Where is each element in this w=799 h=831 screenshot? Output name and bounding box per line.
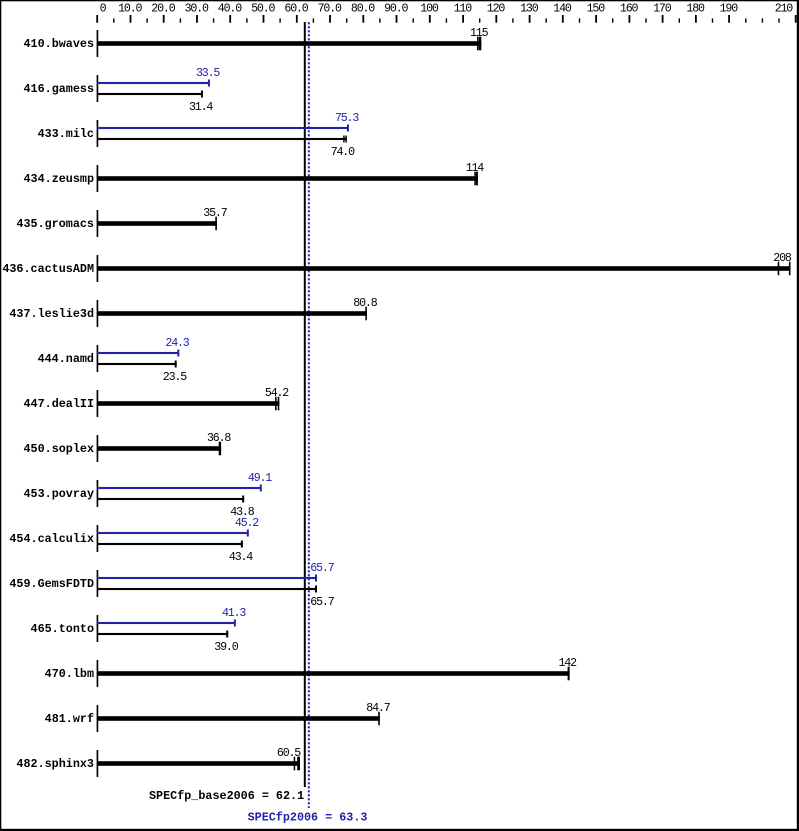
svg-text:50.0: 50.0 [251, 2, 275, 15]
svg-text:10.0: 10.0 [118, 2, 142, 15]
row 450.soplex [23, 432, 231, 462]
svg-text:436.cactusADM: 436.cactusADM [2, 262, 94, 276]
svg-text:444.namd: 444.namd [38, 352, 94, 366]
row 453.povray [23, 472, 272, 519]
svg-text:90.0: 90.0 [384, 2, 408, 15]
svg-text:416.gamess: 416.gamess [23, 82, 94, 96]
svg-text:120: 120 [487, 2, 506, 15]
svg-text:30.0: 30.0 [185, 2, 209, 15]
svg-text:482.sphinx3: 482.sphinx3 [16, 757, 94, 771]
svg-text:115: 115 [470, 27, 489, 40]
row 434.zeusmp [23, 162, 484, 192]
row 410.bwaves [23, 27, 488, 57]
svg-text:45.2: 45.2 [235, 517, 259, 530]
svg-text:437.leslie3d: 437.leslie3d [9, 307, 94, 321]
svg-text:35.7: 35.7 [203, 207, 227, 220]
svg-text:43.4: 43.4 [229, 551, 253, 564]
svg-text:49.1: 49.1 [248, 472, 272, 485]
svg-text:100: 100 [420, 2, 439, 15]
row 454.calculix [9, 517, 259, 564]
SPECfp2006 mean line (63.3, dotted) [308, 22, 310, 808]
svg-text:130: 130 [520, 2, 539, 15]
border frame [0, 0, 799, 1]
svg-text:459.GemsFDTD: 459.GemsFDTD [9, 577, 94, 591]
SPECfp_base2006 mean line (62.1) [304, 22, 306, 787]
svg-text:SPECfp_base2006 = 62.1: SPECfp_base2006 = 62.1 [149, 789, 304, 803]
svg-text:23.5: 23.5 [163, 371, 187, 384]
row 447.dealII [23, 387, 289, 417]
row 416.gamess [23, 67, 220, 114]
svg-text:435.gromacs: 435.gromacs [16, 217, 94, 231]
row 437.leslie3d [9, 297, 377, 327]
svg-text:454.calculix: 454.calculix [9, 532, 94, 546]
svg-text:160: 160 [620, 2, 639, 15]
svg-text:24.3: 24.3 [165, 337, 189, 350]
svg-text:142: 142 [558, 657, 577, 670]
row 470.lbm [45, 657, 577, 687]
svg-text:75.3: 75.3 [335, 112, 359, 125]
row 481.wrf [45, 702, 391, 732]
row 435.gromacs [16, 207, 227, 237]
svg-text:447.dealII: 447.dealII [23, 397, 94, 411]
svg-text:36.8: 36.8 [207, 432, 231, 445]
svg-text:60.5: 60.5 [277, 747, 301, 760]
row 433.milc [38, 112, 360, 159]
svg-text:434.zeusmp: 434.zeusmp [23, 172, 94, 186]
svg-text:465.tonto: 465.tonto [31, 622, 94, 636]
svg-text:40.0: 40.0 [218, 2, 242, 15]
svg-text:65.7: 65.7 [310, 562, 334, 575]
svg-text:114: 114 [466, 162, 485, 175]
svg-text:470.lbm: 470.lbm [45, 667, 94, 681]
row 482.sphinx3 [16, 747, 301, 777]
svg-text:110: 110 [454, 2, 473, 15]
row 465.tonto [31, 607, 247, 654]
svg-text:33.5: 33.5 [196, 67, 220, 80]
svg-text:80.8: 80.8 [353, 297, 377, 310]
x axis scale [96, 15, 796, 23]
svg-text:190: 190 [720, 2, 739, 15]
row 444.namd [38, 337, 190, 384]
svg-text:20.0: 20.0 [151, 2, 175, 15]
svg-text:140: 140 [553, 2, 572, 15]
svg-text:54.2: 54.2 [265, 387, 289, 400]
x axis numbers [100, 2, 794, 15]
svg-text:74.0: 74.0 [331, 146, 355, 159]
svg-text:31.4: 31.4 [189, 101, 213, 114]
row 436.cactusADM [2, 252, 792, 282]
svg-text:84.7: 84.7 [366, 702, 390, 715]
svg-text:39.0: 39.0 [214, 641, 238, 654]
svg-text:481.wrf: 481.wrf [45, 712, 94, 726]
svg-text:65.7: 65.7 [310, 596, 334, 609]
svg-text:70.0: 70.0 [318, 2, 342, 15]
row 459.GemsFDTD [9, 562, 334, 609]
svg-text:SPECfp2006 = 63.3: SPECfp2006 = 63.3 [248, 810, 368, 824]
svg-text:450.soplex: 450.soplex [23, 442, 94, 456]
svg-text:80.0: 80.0 [351, 2, 375, 15]
svg-text:410.bwaves: 410.bwaves [23, 37, 94, 51]
svg-text:41.3: 41.3 [222, 607, 246, 620]
svg-text:150: 150 [587, 2, 606, 15]
svg-text:453.povray: 453.povray [23, 487, 94, 501]
svg-text:433.milc: 433.milc [38, 127, 94, 141]
svg-text:208: 208 [773, 252, 792, 265]
svg-text:60.0: 60.0 [284, 2, 308, 15]
svg-text:210: 210 [775, 2, 794, 15]
svg-text:170: 170 [653, 2, 672, 15]
svg-text:180: 180 [686, 2, 705, 15]
